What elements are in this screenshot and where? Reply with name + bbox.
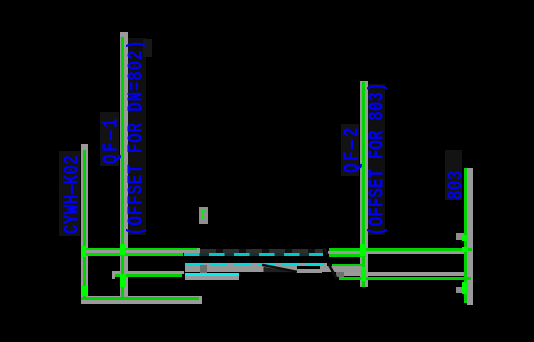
header pipe H1 right gray fill — [328, 251, 472, 255]
small instrument symbol green corner vertical — [201, 210, 203, 220]
header pipe H1 left green bottom edge — [81, 253, 184, 256]
branch pipe H2 right gray band — [339, 272, 469, 276]
riser pipe QF-1 outline (vertical gray, left short riser) — [81, 144, 88, 304]
green line y263 left of QF-2 riser — [332, 264, 364, 267]
junction node P4 x H2 right lower weld — [462, 282, 468, 294]
label background box QF-2 — [341, 124, 359, 176]
existing pipe B bright cyan bottom edge — [185, 273, 239, 276]
bottom pipe H3 green centerline — [81, 297, 200, 300]
small dark connector diagonal at pipe A end — [324, 248, 328, 255]
riser pipe centerline green (DN=802 line) — [121, 37, 124, 299]
existing pipe A dark dashed top edge — [200, 249, 323, 254]
label background box QF-1 — [100, 112, 119, 166]
riser pipe 803 outline (vertical gray, right) — [467, 168, 472, 305]
existing pipe B gray fill right segment — [296, 269, 322, 273]
junction node P1 x H1 — [81, 246, 86, 257]
junction node P3 x H2 right — [361, 267, 367, 281]
riser pipe QF-1 centerline green (left short riser) — [83, 150, 86, 299]
gray band between green line y263 and H2 right — [320, 266, 369, 271]
small instrument symbol gray box — [199, 207, 208, 224]
label (OFFSET FOR DN=802) — [127, 39, 145, 236]
junction node P1 bottom corner — [82, 286, 87, 297]
pipe B transition diagonal — [262, 265, 297, 272]
label background box CYWH-K02 — [59, 151, 80, 236]
junction node P4 x H1 right — [462, 247, 468, 253]
riser pipe QF-2 outline (vertical gray) — [360, 81, 368, 287]
branch pipe H2 left gray band — [112, 271, 185, 274]
label QF-2 — [343, 125, 361, 173]
label (OFFSET FOR 803) — [368, 82, 386, 236]
branch pipe H2 left green — [115, 274, 182, 277]
label CYWH-K02 — [63, 154, 81, 233]
header pipe H1 left green top edge — [81, 248, 197, 250]
label background box (OFFSET FOR DN=802) — [127, 38, 146, 235]
existing pipe A gray stub — [185, 248, 200, 253]
weld tick lower on riser 803 — [456, 287, 464, 293]
header pipe H1 left gray fill — [81, 250, 200, 253]
junction node P2 x H1 — [120, 244, 125, 256]
header pipe H1 right green bottom edge — [329, 254, 367, 257]
junction node P2 x H2 left — [120, 274, 126, 288]
existing pipe B cyan dashed top edge — [185, 263, 327, 266]
existing pipe B gray fill — [185, 265, 297, 272]
header pipe H1 right green top edge — [329, 248, 472, 251]
existing pipe B darker block near x200 — [200, 265, 207, 273]
label background box fragment right of DN=802 text — [143, 39, 152, 57]
label background box (OFFSET FOR 803) — [368, 84, 385, 235]
steep diagonal near x330 — [328, 264, 336, 279]
label QF-1 — [102, 116, 120, 164]
label background box 803 — [445, 150, 462, 200]
branch pipe H2 left gray end cap — [112, 271, 116, 279]
branch pipe H2 right green — [339, 277, 471, 280]
riser pipe 803 centerline green — [464, 168, 467, 303]
existing pipe B gray under bottom edge — [185, 276, 239, 279]
riser pipe QF-1 outline (vertical gray, line with DN=802 label) — [120, 32, 128, 304]
existing pipe A teal dashed bottom edge — [184, 253, 323, 255]
label 803 — [447, 170, 465, 200]
riser pipe QF-2 centerline green — [362, 82, 365, 287]
darker gray block at start of H2 right — [336, 272, 344, 278]
weld tick upper on riser 803 — [456, 233, 464, 240]
bottom pipe H3 gray outline — [81, 296, 203, 304]
pipe B transition wedge — [264, 267, 297, 272]
junction node P3 x H1 right — [360, 244, 366, 256]
junction node P4 upper weld — [462, 235, 468, 241]
small instrument symbol green corner horizontal — [201, 210, 206, 212]
